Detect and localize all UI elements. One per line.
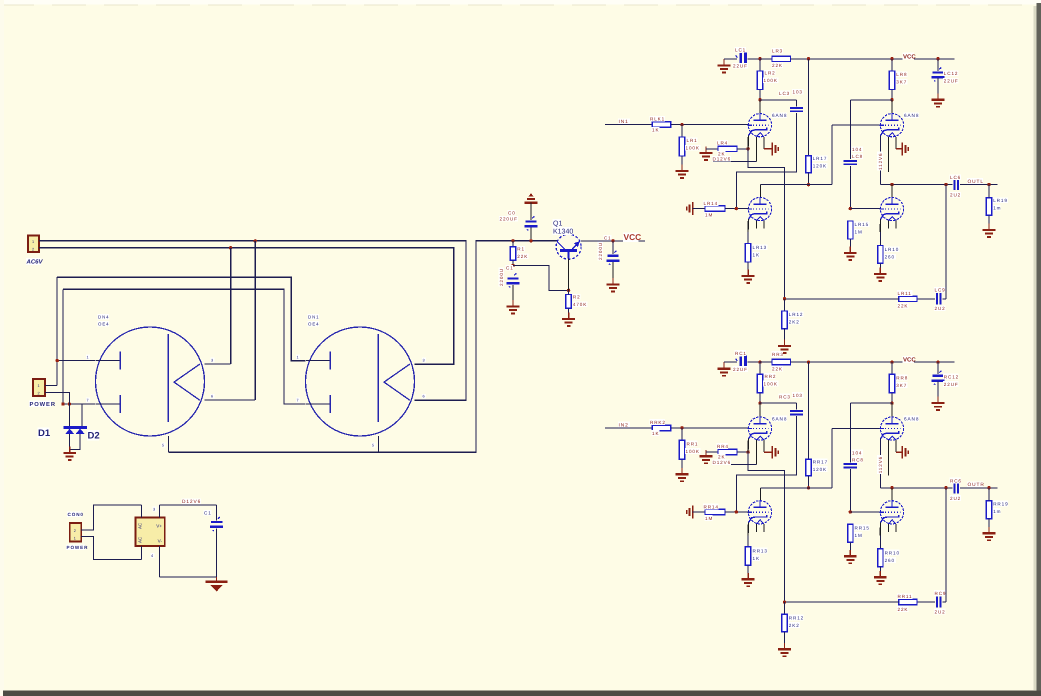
capacitor LC8 104 [844, 161, 857, 164]
svg-text:2: 2 [74, 529, 77, 533]
resistor RR19 1M [986, 501, 991, 519]
wire to V4 grid [850, 208, 880, 210]
wire plate lead V2 [760, 185, 762, 198]
svg-text:DN4: DN4 [98, 314, 109, 319]
junction V2 grid [735, 510, 738, 513]
wire V2 plate to riser [761, 184, 833, 186]
svg-text:RR1: RR1 [687, 441, 699, 446]
wire to RR1 [681, 428, 683, 440]
svg-text:RR8: RR8 [896, 375, 908, 380]
ground below LR12 [778, 340, 791, 353]
svg-text:6AN8: 6AN8 [772, 416, 787, 421]
resistor RR10 260 [878, 549, 883, 567]
wire heater to ground [764, 451, 772, 453]
svg-text:K1340: K1340 [553, 229, 573, 236]
capacitor C0 220UF [525, 216, 538, 230]
triode V3A 6AN8 [879, 114, 903, 172]
label LR8 [896, 71, 908, 77]
wire D2 to ground [70, 434, 80, 450]
junction R1 top [511, 239, 514, 242]
wire R13 to ground [747, 262, 749, 275]
wire R10 to ground [879, 263, 881, 273]
svg-text:1M: 1M [855, 230, 863, 235]
rotated ground RR14 [687, 506, 693, 519]
wire VCC rail [791, 58, 955, 60]
ground below RR1 [676, 468, 689, 481]
wire cathode V3 to output [879, 439, 881, 488]
wire to R10 [879, 535, 881, 549]
wire R8 to plate node [891, 90, 893, 100]
triode V4A [879, 197, 903, 228]
svg-text:3K7: 3K7 [896, 80, 907, 85]
svg-text:100K: 100K [686, 449, 700, 454]
wire R4 to cathode [737, 148, 748, 150]
wire RR1 to ground [681, 459, 683, 473]
wire to V1 grid [671, 427, 749, 429]
junction AC2/T1 pin3 riser [229, 246, 232, 249]
svg-text:112V6: 112V6 [878, 456, 883, 473]
ground below LR10 [874, 268, 887, 281]
wire to RR12 [784, 602, 786, 614]
svg-text:RC6: RC6 [950, 478, 962, 483]
svg-text:7: 7 [297, 399, 300, 403]
label RR3 [771, 351, 783, 357]
svg-text:1M: 1M [705, 516, 713, 521]
wire VCC cap to ground [612, 262, 614, 278]
svg-text:LC9: LC9 [935, 288, 946, 293]
resistor LK1 1K [652, 122, 670, 127]
wire cathode lead V1 [747, 439, 749, 452]
label RC6 [949, 478, 961, 484]
label CON0 [67, 512, 82, 518]
label RR17 [812, 459, 827, 465]
svg-text:1K: 1K [652, 128, 659, 133]
svg-text:22UF: 22UF [733, 64, 748, 69]
svg-text:2K2: 2K2 [789, 320, 800, 325]
label C1 heater [203, 510, 211, 516]
label RR2 [764, 373, 776, 379]
junction rail/R8 [890, 57, 893, 60]
resistor LR17 120K [806, 156, 811, 173]
label LR19 [993, 197, 1008, 203]
svg-text:104: 104 [852, 450, 862, 455]
transformer label [97, 314, 108, 319]
label C1 out [603, 235, 611, 240]
junction R17/V2 plate [807, 486, 810, 489]
capacitor RC12 22UF [932, 371, 945, 385]
svg-text:CON0: CON0 [68, 512, 84, 517]
pin number 3 T1 [210, 358, 214, 363]
svg-text:OE4: OE4 [308, 321, 320, 326]
label LR10 [884, 246, 899, 252]
wire to R1 [512, 241, 514, 247]
svg-text:RR4: RR4 [717, 444, 729, 449]
resistor LR3 22K [772, 56, 791, 61]
wire to LR1 [681, 125, 683, 137]
rotated ground heater V1 [772, 143, 778, 156]
svg-text:LR1: LR1 [687, 138, 698, 143]
label LK1 [649, 116, 664, 122]
label RR1 [686, 441, 698, 447]
svg-text:IN2: IN2 [619, 422, 629, 428]
svg-text:V-: V- [158, 539, 163, 544]
svg-text:LC8: LC8 [852, 154, 863, 159]
label RR12 [788, 615, 803, 621]
junction output/feedback [944, 183, 947, 186]
wire cathode lead V4 [879, 523, 881, 536]
pin number 1 T1 [86, 355, 90, 360]
label RR19 [993, 501, 1008, 507]
svg-text:22UF: 22UF [944, 382, 959, 387]
wire R11 to feedback node [785, 601, 899, 603]
svg-text:LC12: LC12 [944, 71, 959, 76]
svg-text:103: 103 [793, 393, 803, 398]
capacitor RC6 2U2 [955, 482, 958, 493]
net label OUTL [967, 178, 983, 184]
junction R17/V2 plate [807, 183, 810, 186]
svg-text:120K: 120K [813, 467, 827, 472]
svg-text:470K: 470K [573, 302, 587, 307]
wire POWER pin1 [45, 385, 57, 387]
wire bridge V+ to C1 [160, 504, 217, 506]
capacitor C1 heater supply [210, 517, 223, 531]
svg-text:22K: 22K [898, 607, 909, 612]
wire fb to C9 [942, 601, 946, 603]
svg-text:C1: C1 [204, 511, 212, 516]
svg-text:2U2: 2U2 [935, 609, 946, 614]
label AC6V [26, 258, 41, 265]
junction plate node V3 [890, 98, 893, 101]
svg-text:22K: 22K [517, 254, 528, 259]
label LR15 [854, 221, 869, 227]
svg-text:6: 6 [423, 395, 426, 399]
svg-text:IN1: IN1 [619, 119, 629, 125]
pin number 6 T2 [422, 394, 426, 399]
wire to V3 grid [832, 428, 880, 430]
wire heater V3 to ground [896, 148, 902, 150]
wire T1 pin7 lead [63, 403, 96, 405]
svg-text:OE4: OE4 [98, 321, 110, 326]
junction rail/R17 [807, 57, 810, 60]
capacitor LC6 2U2 [955, 179, 958, 190]
wire to LR12 [784, 299, 786, 311]
net label D12V6 [712, 459, 731, 465]
label C1 PSU [505, 265, 513, 271]
wire ground to LC1 [724, 58, 737, 60]
wire LC9 to LR11 [917, 298, 935, 300]
resistor RR17 120K [806, 459, 811, 476]
net label VCC [623, 232, 639, 242]
svg-text:AC: AC [138, 537, 143, 543]
wire plate node to C8 branch [850, 402, 892, 404]
wire RC1 to node [747, 361, 760, 363]
label LR3 [771, 48, 783, 54]
label R2 [572, 294, 580, 300]
ground below RR13 [742, 573, 755, 586]
resistor LR2 100K [757, 71, 762, 90]
wire POWER pin2 [45, 393, 69, 404]
svg-text:100K: 100K [764, 381, 778, 386]
svg-text:220UF: 220UF [500, 217, 518, 222]
label POWER [29, 400, 52, 407]
resistor LR10 260 [878, 246, 883, 264]
connector CON0 [70, 523, 82, 542]
wire bridge pin2 [141, 505, 143, 518]
junction output load [987, 183, 990, 186]
resistor RR4 2K [718, 449, 737, 454]
ground at LC1 [718, 59, 731, 72]
triode V3B 6AN8 [879, 417, 903, 475]
junction input node [680, 426, 683, 429]
capacitor LC12 22UF [932, 68, 945, 82]
label LC9 [934, 287, 946, 293]
svg-text:112V6: 112V6 [878, 153, 883, 170]
resistor LR11 22K [899, 296, 917, 301]
label Q1 [552, 219, 561, 227]
svg-text:RR2: RR2 [765, 374, 777, 379]
wire R15 to ground [849, 542, 851, 555]
label RK1 [649, 419, 664, 425]
wire riser to V3 grid [831, 125, 833, 184]
svg-text:22K: 22K [772, 366, 783, 371]
svg-text:3: 3 [153, 508, 156, 512]
resistor RR2 100K [757, 374, 762, 393]
wire heater to D12V6 [713, 160, 757, 162]
ground below LC12 [932, 93, 945, 106]
wire Q1 source lead [568, 259, 570, 291]
svg-text:1: 1 [87, 356, 90, 360]
wire gnd stem R4 [705, 149, 707, 152]
ground below LR13 [742, 270, 755, 283]
wire R12 to ground [784, 632, 786, 648]
wire cathode lead V2 [747, 219, 749, 232]
label VCC rail [902, 356, 914, 363]
svg-text:C1: C1 [506, 266, 514, 271]
wire C1 to ground [512, 285, 514, 300]
capacitor RC1 22UF [736, 356, 746, 369]
junction output/feedback [944, 486, 947, 489]
label LR11 [897, 290, 912, 296]
svg-text:RR10: RR10 [885, 550, 900, 555]
resistor LR12 2K2 [782, 311, 787, 329]
triode V1B 6AN8 [747, 417, 771, 465]
wire plate node to RC3 [760, 402, 797, 404]
wire plate node to LC3 [760, 99, 797, 101]
junction V4 plate/output [890, 183, 893, 186]
ground below RR15 [844, 550, 857, 563]
tube label 6AN8 [903, 416, 919, 422]
wire cathode lead V1 [747, 135, 749, 148]
resistor RR3 22K [772, 359, 791, 364]
svg-text:LR2: LR2 [765, 71, 776, 76]
svg-text:OUTL: OUTL [968, 179, 984, 185]
svg-text:RR12: RR12 [789, 615, 804, 620]
pin number 5 T2 [371, 443, 375, 448]
wire primary B [63, 289, 306, 404]
svg-text:2: 2 [32, 248, 35, 252]
svg-text:OUTR: OUTR [968, 482, 985, 488]
wire bridge pin1 [141, 546, 143, 560]
label LR2 [764, 70, 776, 76]
label C0 [507, 210, 515, 216]
label LC12 [943, 70, 958, 76]
wire to V3 grid [832, 124, 880, 126]
label LC3 [778, 90, 790, 96]
wire rail to LR8 [891, 59, 893, 71]
wire to R10 [879, 232, 881, 246]
wire R15 to ground [849, 239, 851, 252]
wire rail to LC12 [937, 59, 939, 71]
junction pin7 node [61, 402, 64, 405]
connector POWER [33, 379, 45, 396]
wire R14 to grid [725, 208, 748, 210]
junction pin1/POWER [56, 359, 59, 362]
wire rail to RR17 [808, 362, 810, 459]
resistor RK1 1K [652, 425, 670, 430]
svg-text:LC1: LC1 [735, 48, 746, 53]
wire D1 to ground [69, 434, 71, 450]
wire gnd to LR4 [706, 148, 718, 150]
ground at LR4 [700, 147, 713, 160]
svg-text:1K: 1K [652, 431, 659, 436]
wire T1 pin5 [167, 436, 169, 452]
svg-text:2200U: 2200U [499, 268, 504, 286]
svg-text:DN1: DN1 [308, 314, 319, 319]
wire T1 pin3 riser [230, 248, 232, 364]
svg-text:POWER: POWER [30, 401, 56, 408]
svg-text:D12V6: D12V6 [182, 499, 201, 505]
wire R13 to ground [747, 565, 749, 578]
junction rail/R8 [890, 360, 893, 363]
triode V1A 6AN8 [747, 114, 771, 162]
wire Q1 drain to VCC [581, 240, 645, 242]
ground below LR19 [983, 224, 996, 237]
wire fb to C9 [942, 298, 946, 300]
pin number 4 bridge [150, 553, 154, 558]
ground below RR10 [874, 571, 887, 584]
wire gnd to RR4 [706, 451, 718, 453]
ground below RC12 [932, 397, 945, 410]
label LR14 [703, 200, 718, 206]
svg-text:RR3: RR3 [772, 352, 784, 357]
transformer label [307, 314, 318, 319]
wire R19 to ground [988, 519, 990, 533]
label RR10 [884, 550, 899, 556]
label RC1 [734, 350, 746, 356]
junction diode node [68, 402, 71, 405]
wire feedback vertical [945, 488, 947, 602]
svg-text:1: 1 [297, 356, 300, 360]
capacitor RC3 103 [790, 411, 803, 414]
svg-text:RR14: RR14 [704, 504, 719, 509]
pin number 3 T2 [422, 358, 426, 363]
svg-text:103: 103 [793, 90, 803, 95]
wire to D2 [81, 404, 83, 427]
wire plate lead V1 [759, 403, 761, 417]
svg-text:LR19: LR19 [993, 198, 1008, 203]
svg-text:5: 5 [372, 444, 375, 448]
wire CON0 to bridge AC1 [81, 505, 141, 530]
pin number 3 bridge [152, 507, 156, 512]
svg-text:6AN8: 6AN8 [904, 416, 919, 421]
wire to D1 [68, 404, 70, 427]
svg-text:VCC: VCC [903, 53, 916, 60]
svg-text:LR14: LR14 [704, 201, 719, 206]
junction rail/LC12 [936, 57, 939, 60]
wire into LC3 [796, 100, 798, 107]
svg-text:22UF: 22UF [733, 367, 748, 372]
svg-text:R1: R1 [517, 247, 525, 252]
resistor LR4 2K [718, 146, 737, 151]
wire heater to ground [764, 148, 772, 150]
capacitor LC1 22UF [736, 52, 746, 65]
label R1 [517, 246, 525, 252]
rotated ground heater V3 [902, 143, 908, 156]
tube label 6AN8 [771, 416, 787, 422]
capacitor RC8 104 [844, 464, 857, 467]
wire bridge V- return [160, 576, 217, 578]
label LC1 [734, 47, 746, 53]
svg-text:6: 6 [211, 395, 214, 399]
svg-text:LR15: LR15 [855, 222, 870, 227]
svg-text:VCC: VCC [903, 357, 916, 364]
wire R11 to feedback node [785, 298, 899, 300]
wire R17 to V2 plate line [808, 173, 810, 185]
resistor RR11 22K [899, 599, 917, 604]
wire CON0 to bridge AC2 [81, 536, 141, 559]
ground below heater C1 [206, 580, 228, 583]
wire R2 to ground [568, 308, 570, 318]
wire feedback vertical [945, 185, 947, 299]
svg-text:R2: R2 [573, 295, 581, 300]
resistor LR14 1M [705, 206, 725, 211]
net label IN1 [618, 118, 630, 124]
junction feedback node [783, 297, 786, 300]
wire gnd stem R4 [705, 452, 707, 455]
label RC3 [778, 394, 790, 400]
junction plate node V1 [758, 401, 761, 404]
svg-text:RLK1: RLK1 [650, 117, 665, 122]
junction plate node V3 [890, 401, 893, 404]
wire RC1 ground stem [723, 362, 725, 368]
svg-text:D2: D2 [88, 431, 100, 442]
svg-text:1K: 1K [753, 556, 760, 561]
resistor LR1 100K [679, 137, 684, 156]
resistor LR15 1M [848, 221, 853, 239]
connector AC6V [28, 236, 39, 253]
wire LC1 to node [747, 58, 760, 60]
diode D2 [76, 429, 85, 434]
rotated ground LR14 [687, 202, 693, 215]
svg-text:RC1: RC1 [735, 351, 747, 356]
wire rail to RR8 [891, 362, 893, 374]
junction plate-supply node [758, 57, 761, 60]
svg-text:22K: 22K [898, 304, 909, 309]
wire node to Q1 source [513, 266, 569, 291]
wire T1 pin6 riser [254, 241, 256, 400]
svg-text:LR12: LR12 [789, 312, 804, 317]
wire RC9 to RR11 [917, 601, 935, 603]
wire cathode V3 to output [879, 135, 881, 184]
wire ground to RC1 [724, 361, 737, 363]
resistor R2 470K [566, 295, 571, 309]
wire RC8 to V4 grid [849, 469, 851, 512]
resistor RR15 1M [848, 524, 853, 542]
svg-text:D12V6: D12V6 [713, 460, 732, 465]
wire plate node to C8 branch [850, 99, 892, 101]
wire cathode lead V2 [747, 523, 749, 536]
svg-text:D1: D1 [38, 428, 51, 439]
